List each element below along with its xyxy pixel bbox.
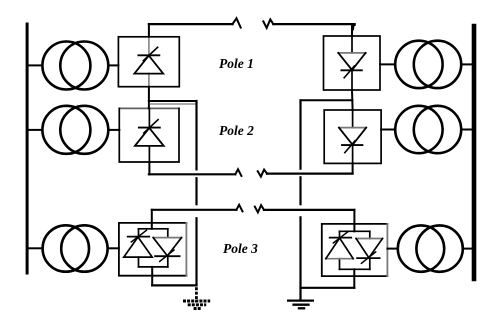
wire: neutral tap left (junction to x=196.5) — [149, 100, 197, 102]
earth electrode dashed lead (left) — [195, 287, 198, 302]
converter box B2R (inverter Pole 2) — [324, 110, 381, 163]
station ground (right) — [287, 301, 314, 309]
wire inside B2L — [148, 108, 150, 162]
line break symbol (right start, pole 1 line) — [263, 19, 273, 28]
transformer T2 (left, Pole 2) — [42, 106, 108, 154]
line break symbol (right start, pole 2 line) — [258, 170, 267, 177]
wire: T2 to converter box B2L — [109, 129, 120, 131]
wire: left bus to transformer T2 — [29, 129, 43, 131]
DC line Pole 3 right section — [264, 209, 354, 211]
wire: T1 to converter box B1L — [109, 64, 119, 66]
DC line Pole 1 right section — [273, 23, 354, 25]
wire: B3R bottom to neutral — [353, 269, 355, 288]
earth electrode ground (dotted, left) — [183, 301, 210, 309]
DC line Pole 3 left section — [152, 209, 237, 211]
converter box B2L (rectifier Pole 2) — [119, 107, 179, 109]
grey ghost line under tap — [150, 103, 196, 105]
line break symbol (left end, pole 3 line) — [236, 205, 242, 212]
transformer T2R (right, Pole 2) — [395, 106, 461, 153]
wire: T1R to right bus — [461, 63, 472, 65]
transformer T1 (left, Pole 1) — [42, 42, 108, 90]
wire: pole 3 line down into B3R — [353, 210, 355, 231]
wire: B3L bottom to neutral — [151, 267, 153, 286]
DC line Pole 2 right section — [267, 173, 353, 175]
wire: bottom horizontal right neutral — [301, 287, 355, 289]
line break symbol (left end, pole 1 line) — [233, 18, 241, 27]
neutral bus left vertical (with hop gaps) — [195, 101, 197, 285]
wire: left bus to transformer T1 — [29, 64, 43, 66]
wire inside B1L (grey) — [148, 37, 150, 87]
wire: left bus to transformer T3 — [29, 247, 43, 249]
wire inside B1R — [351, 36, 353, 90]
converter box B1L (rectifier Pole 1) — [118, 37, 179, 87]
wire inside B2R — [352, 110, 354, 163]
converter box B3L (back-to-back valves, Pole 3) — [119, 223, 186, 276]
DC line Pole 2 left section — [149, 173, 235, 175]
label Pole 2 — [219, 123, 254, 139]
wire: T3 to converter box B3L — [108, 247, 119, 249]
thyristor valve V3La (pointing up) — [124, 230, 152, 257]
thyristor valve V3Rb (pointing down) — [356, 239, 382, 264]
thyristor valve V2L (pointing up) — [135, 120, 164, 146]
wire: B2L bottom down to mid line — [148, 162, 150, 174]
thyristor valve V3Lb (pointing down) — [153, 238, 181, 262]
wire: bottom horizontal left neutral — [152, 284, 196, 286]
DC line Pole 1 left section — [149, 23, 233, 25]
transformer T1R (right, Pole 1) — [395, 41, 461, 88]
inner link frame B3L — [139, 229, 168, 267]
AC bus right — [472, 26, 477, 279]
converter box B3R (back-to-back valves, Pole 3) — [322, 224, 388, 276]
wire: B2R bottom down to mid line — [352, 163, 354, 173]
stray tick artifact near pole1 line corner — [352, 26, 354, 29]
line break symbol (left end, pole 2 line) — [235, 169, 241, 176]
wire: top of B1L up to DC line — [148, 24, 150, 37]
label Pole 1 — [219, 56, 254, 72]
thyristor valve V1R (pointing down) — [338, 53, 365, 78]
thyristor valve V2R (pointing down) — [339, 128, 366, 153]
converter box B1R (inverter Pole 1) — [324, 36, 381, 90]
transformer T3 (left, Pole 3) — [43, 225, 108, 271]
wire: B3R to transformer T3R — [387, 248, 397, 250]
transformer T3R (right, Pole 3) — [398, 225, 463, 271]
wire: T3R to right bus — [463, 248, 472, 250]
neutral bus right vertical (with hop gaps) — [299, 100, 301, 300]
wire: neutral tap right (junction to x=300.5) — [301, 99, 353, 101]
wire: pole 3 line down into B3L — [151, 210, 153, 229]
wire: DC line down to B1R — [352, 24, 355, 36]
line break symbol (right start, pole 3 line) — [255, 205, 264, 212]
inner link frame B3R — [340, 231, 370, 269]
label Pole 3 — [223, 241, 258, 257]
wire: series link B1L bottom to B2L top — [148, 87, 150, 109]
wire: series link B1R bottom to B2R top — [351, 90, 354, 110]
wire: B2R to transformer T2R — [381, 129, 395, 131]
wire: B1R to transformer T1R — [380, 63, 395, 65]
thyristor valve V1L (pointing up) — [134, 47, 163, 73]
thyristor valve V3Ra (pointing up) — [326, 231, 353, 258]
wire: T2R to right bus — [461, 129, 472, 131]
AC bus left — [26, 24, 29, 273]
